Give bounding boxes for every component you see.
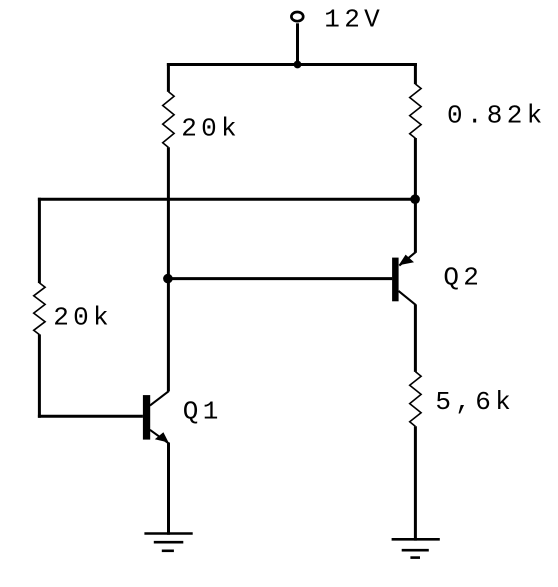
transistor Q2 collector lead [399,291,416,305]
svg-text:20k: 20k [53,303,113,333]
transistor Q2 base bar [392,258,399,302]
wire node A horizontal [38,198,417,201]
svg-text:Q2: Q2 [443,263,483,293]
junction node B (Q1 collector / Q2 base) [163,274,173,284]
wire Q2 emitter vertical [414,198,417,253]
wire corner to Q1 base [38,415,143,418]
wire from terminal to rail [296,23,299,66]
svg-text:Q1: Q1 [183,397,223,427]
svg-text:0.82k: 0.82k [447,101,547,131]
wire R3 bottom to node A [414,138,417,200]
transistor Q2 emitter lead [399,252,415,265]
ground under R4 [392,539,440,557]
wire Q2 collector to R4 [414,304,417,372]
terminal 12V supply [291,12,303,21]
wire R4 to ground [414,426,417,540]
transistor Q1 emitter lead [150,430,169,444]
wire R2 bottom to corner [38,334,41,417]
resistor R4 5,6k [410,372,421,427]
ground under Q1 [144,534,192,551]
svg-text:12V: 12V [324,5,384,35]
wire Q1 emitter to ground [167,443,170,535]
wire Vcc rail [167,63,417,66]
svg-text:5,6k: 5,6k [435,387,515,417]
wire R1 bottom to Q1 collector [167,147,170,391]
transistor Q1 collector lead [150,391,169,405]
resistor R2 20k [34,283,45,335]
resistor R3 0.82k [410,84,421,138]
transistor Q1 emitter arrow [155,432,169,442]
junction node A (R3 bottom / Q2 emitter / feedback) [410,194,420,204]
wire rail to R3 [414,63,417,84]
junction on Vcc rail [294,61,302,69]
transistor Q2 emitter arrow [399,255,414,266]
wire rail to R1 [167,63,170,92]
transistor Q1 base bar [143,395,150,440]
svg-text:20k: 20k [181,113,241,143]
resistor R1 20k [163,92,174,148]
wire node A down to R2 [38,198,41,283]
wire Q2 base horizontal [168,277,392,280]
